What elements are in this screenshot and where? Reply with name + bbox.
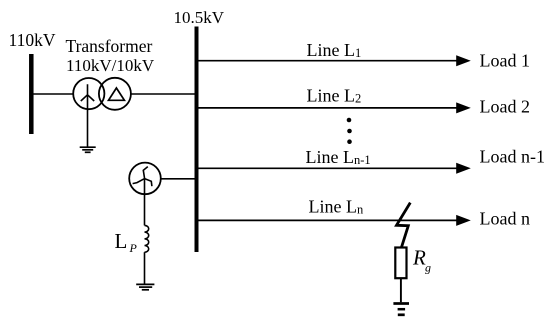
wire resistor to ground bbox=[400, 278, 402, 302]
wire bus B1 to transformer bbox=[33, 93, 73, 95]
svg-text:Load n: Load n bbox=[480, 209, 530, 229]
ground under resistor (bold) bbox=[393, 304, 409, 315]
svg-text:Line Ln: Line Ln bbox=[309, 197, 364, 217]
inductor LP coil bbox=[145, 225, 149, 252]
wire inductor to ground bbox=[144, 252, 146, 284]
wire line L1 bbox=[198, 60, 457, 62]
arrow line Ln-1 bbox=[456, 163, 471, 174]
arrow line L1 bbox=[456, 55, 471, 66]
wire coil neutral down to inductor bbox=[144, 179, 146, 226]
fault F lightning bolt on line Ln bbox=[397, 203, 411, 247]
wire transformer neutral down bbox=[87, 95, 89, 147]
svg-text:R: R bbox=[412, 246, 426, 270]
ground under inductor bbox=[136, 284, 154, 289]
svg-text:g: g bbox=[425, 261, 431, 275]
svg-text:L: L bbox=[115, 229, 128, 253]
ellipsis dots bbox=[347, 118, 352, 144]
svg-text:Line L2: Line L2 bbox=[307, 86, 362, 106]
ground under transformer bbox=[80, 147, 96, 152]
svg-text:Load 2: Load 2 bbox=[480, 97, 530, 117]
arrow line Ln bbox=[456, 215, 471, 226]
svg-text:10.5kV: 10.5kV bbox=[174, 8, 225, 27]
transformer T1 primary winding (wye circle) bbox=[73, 78, 104, 109]
svg-text:Load n-1: Load n-1 bbox=[480, 147, 545, 167]
wire line L2 bbox=[198, 107, 457, 109]
svg-text:Line L1: Line L1 bbox=[307, 40, 362, 60]
svg-text:110kV/10kV: 110kV/10kV bbox=[66, 56, 155, 75]
resistor Rg bbox=[395, 248, 406, 279]
wire coil to bus B2 bbox=[161, 178, 195, 180]
svg-text:Load 1: Load 1 bbox=[480, 51, 530, 71]
arc suppression coil circle (zigzag winding) bbox=[129, 163, 161, 195]
svg-text:110kV: 110kV bbox=[9, 30, 56, 50]
wire line Ln bbox=[198, 219, 457, 221]
transformer T1 secondary winding (delta circle) bbox=[99, 78, 131, 110]
bus B1 110kV busbar bbox=[29, 54, 34, 134]
wire transformer to bus B2 bbox=[131, 93, 195, 95]
wire line Ln-1 bbox=[198, 167, 457, 169]
arrow line L2 bbox=[456, 102, 471, 113]
bus B2 10.5kV busbar bbox=[195, 27, 199, 253]
svg-text:Transformer: Transformer bbox=[66, 36, 153, 56]
svg-text:P: P bbox=[129, 241, 138, 255]
